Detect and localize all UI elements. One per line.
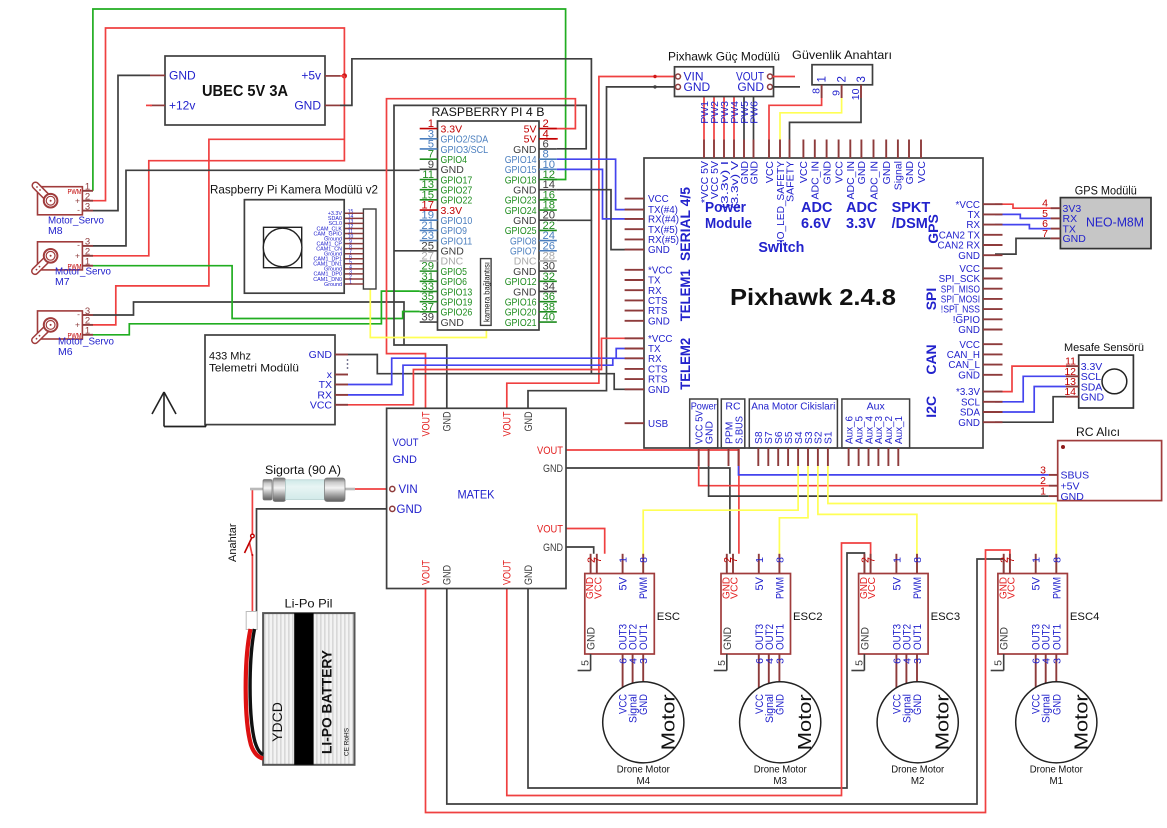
svg-text:6.6V: 6.6V	[801, 216, 831, 232]
svg-text:GPS Modülü: GPS Modülü	[1075, 186, 1137, 198]
svg-text:VOUT: VOUT	[502, 560, 514, 585]
wire MATEK GND2 to Pixhawk Guc Modulu GND	[528, 87, 676, 408]
svg-text:10: 10	[850, 88, 862, 100]
wire PW6	[753, 97, 755, 140]
svg-text:GND: GND	[859, 627, 871, 650]
ESC ESC4	[991, 554, 1100, 690]
svg-text:1: 1	[618, 557, 630, 563]
svg-text:GND: GND	[958, 251, 980, 262]
wire UBEC GND left to servo M8 pin3	[93, 75, 150, 210]
svg-text:Sigorta (90 A): Sigorta (90 A)	[265, 465, 341, 477]
svg-text:3: 3	[912, 658, 924, 664]
svg-text:3: 3	[638, 658, 650, 664]
svg-text:Drone Motor: Drone Motor	[617, 765, 671, 776]
wire MATEK bottom GND1 to ESC4 GND bus	[447, 559, 1004, 804]
svg-text:7: 7	[1042, 228, 1048, 240]
svg-text:I2C: I2C	[923, 396, 939, 418]
power module VOUT stub	[773, 76, 796, 78]
svg-text:1: 1	[891, 557, 903, 563]
svg-text:PW6: PW6	[748, 101, 760, 124]
svg-text:8: 8	[1051, 557, 1063, 563]
svg-text:5: 5	[716, 660, 728, 666]
ESC ESC	[578, 554, 680, 690]
svg-text:Güvenlik Anahtarı: Güvenlik Anahtarı	[792, 48, 892, 62]
svg-text:Drone Motor: Drone Motor	[754, 765, 808, 776]
wire Pixhawk GPS TX to GPS RX	[995, 214, 1051, 218]
GPS module NEO-M8M	[1042, 186, 1151, 249]
svg-text:MATEK: MATEK	[458, 488, 495, 502]
wire +5v branch to servo M6 pin2	[93, 139, 344, 325]
svg-text:5: 5	[853, 660, 865, 666]
wire MATEK bottom GND2 to ESC3 GND bus	[528, 553, 864, 788]
svg-text:GND: GND	[441, 317, 465, 329]
svg-text:GND: GND	[294, 99, 321, 113]
wire PW2	[713, 97, 715, 140]
svg-text:433 Mhz: 433 Mhz	[209, 351, 251, 363]
wire 433 RX to TELEM2 RX	[348, 358, 644, 395]
svg-text:VOUT: VOUT	[502, 411, 514, 436]
svg-text:RX: RX	[648, 354, 662, 365]
svg-text:OUT1: OUT1	[638, 624, 650, 650]
svg-text:3: 3	[1051, 658, 1063, 664]
flight controller Pixhawk 2.4.8	[644, 158, 983, 448]
svg-text:GND: GND	[648, 245, 670, 256]
power module GND stub	[773, 86, 801, 88]
servo motor M6	[35, 306, 93, 340]
svg-text:39: 39	[421, 312, 434, 324]
battery wires thick	[246, 629, 263, 759]
svg-text:GND: GND	[543, 463, 563, 475]
svg-text:YDCD: YDCD	[269, 702, 285, 742]
wire Pixhawk GPS VCC to GPS 3V3	[995, 204, 1051, 208]
svg-text:5V: 5V	[891, 576, 903, 590]
svg-text:ADC_IN: ADC_IN	[868, 161, 880, 200]
svg-text:PWM: PWM	[1051, 577, 1063, 599]
MATEK labels	[393, 437, 495, 502]
svg-text:Anahtar: Anahtar	[227, 523, 239, 562]
wire Pixhawk 3.3V to sensor 3.3V	[995, 366, 1066, 392]
motor Drone Motor M3	[740, 682, 821, 787]
svg-text:VCC: VCC	[916, 161, 928, 184]
Pixhawk bottom connector groups	[690, 399, 910, 466]
MATEK top pins	[420, 411, 535, 436]
wire 433 VCC to TELEM2 VCC	[348, 338, 644, 405]
MATEK right pins	[537, 445, 563, 554]
svg-text:Motor: Motor	[1071, 694, 1091, 750]
svg-text:GND: GND	[958, 325, 980, 336]
svg-text:ESC4: ESC4	[1070, 611, 1100, 623]
camera connector kamera baglantisi	[481, 259, 492, 326]
wire PW3	[723, 97, 725, 140]
svg-text:5V: 5V	[618, 576, 630, 590]
svg-text:M1: M1	[1049, 776, 1063, 787]
wire RPi pin6 GND to MATEK GND1	[394, 105, 586, 408]
antenna symbol	[152, 392, 206, 427]
svg-text:OUT1: OUT1	[912, 624, 924, 650]
svg-text:GND: GND	[648, 316, 670, 327]
fuse Sigorta 90 A	[250, 465, 355, 502]
svg-text:Drone Motor: Drone Motor	[891, 765, 945, 776]
svg-text:1: 1	[817, 76, 829, 82]
svg-text:S.BUS: S.BUS	[734, 416, 745, 444]
svg-text:GPIO21: GPIO21	[505, 317, 537, 329]
motor Drone Motor M2	[877, 682, 958, 787]
svg-text:M6: M6	[58, 346, 73, 358]
svg-text:VCC: VCC	[310, 400, 333, 412]
wire RPi GPIO15 to Pixhawk RX#4	[557, 169, 644, 219]
svg-text:PWM: PWM	[638, 577, 650, 599]
svg-text:GND: GND	[856, 161, 868, 185]
svg-text:Motor: Motor	[933, 694, 953, 750]
servo motor M7	[35, 237, 93, 271]
svg-text:UBEC 5V 3A: UBEC 5V 3A	[202, 83, 288, 100]
wire MATEK GND right1 to ESC2 GND	[566, 468, 730, 554]
wire RPi pin25 GND tap	[394, 250, 438, 252]
svg-text:GND: GND	[774, 694, 786, 715]
wire PW5	[743, 97, 745, 140]
wire PW1	[703, 97, 705, 140]
svg-text:5: 5	[580, 660, 592, 666]
svg-text:7: 7	[728, 557, 740, 563]
svg-text:VIN: VIN	[399, 484, 418, 496]
svg-text:ESC3: ESC3	[931, 611, 961, 623]
wire S3 to ESC2 PWM	[779, 466, 808, 574]
wire S.BUS to RC SBUS	[739, 466, 1049, 475]
svg-text:TELEM1: TELEM1	[677, 269, 693, 321]
wire Pixhawk I2C GND to sensor GND	[995, 397, 1066, 423]
svg-text:GND: GND	[1081, 392, 1105, 404]
Pixhawk left pins SERIAL4/5 TELEM1 TELEM2 USB	[625, 194, 679, 430]
wire MATEK VOUT right2 to ESC1 VCC	[566, 529, 605, 554]
svg-text:1: 1	[1040, 486, 1046, 498]
camera Raspberry Pi Kamera Modulu v2	[210, 183, 378, 294]
svg-text:VCC: VCC	[729, 577, 741, 599]
ESC ESC2	[714, 554, 823, 690]
svg-text:Motor: Motor	[795, 694, 815, 750]
wire GND to RC GND	[709, 466, 1049, 496]
svg-text:5: 5	[993, 660, 1005, 666]
svg-text:ADC_IN: ADC_IN	[810, 161, 822, 200]
svg-text:SPI: SPI	[923, 288, 939, 311]
wire RPi pin20 GND down to GND bus	[590, 220, 592, 373]
svg-text:GND: GND	[309, 349, 333, 361]
svg-text:M2: M2	[911, 776, 925, 787]
svg-text:GND: GND	[1051, 694, 1063, 715]
svg-text:kamera bağlantısı: kamera bağlantısı	[482, 262, 491, 322]
wire safety pin3 to Pixhawk SAFETY	[790, 98, 862, 140]
svg-text:3: 3	[774, 658, 786, 664]
svg-text:ADC: ADC	[801, 200, 833, 216]
svg-text:3: 3	[856, 76, 868, 82]
svg-text:3.3V: 3.3V	[846, 216, 876, 232]
svg-text:GND: GND	[958, 370, 980, 381]
svg-text:TELEM2: TELEM2	[677, 338, 693, 390]
svg-text:GND: GND	[397, 504, 423, 516]
battery Li-Po Pil	[263, 597, 354, 765]
wire servo M6 pin1 PWM to RPi GPIO13	[93, 291, 420, 335]
svg-text:PWM: PWM	[912, 577, 924, 599]
wire +5V top loop (UBEC +5v to servo M8 pin2)	[93, 28, 344, 201]
svg-text:5V: 5V	[754, 576, 766, 590]
svg-text:GND: GND	[904, 161, 916, 185]
svg-text:+: +	[75, 251, 80, 261]
svg-text:GND: GND	[648, 385, 670, 396]
wire GPIO18 loop (RPi pin12 to servo M8 pin1)	[93, 9, 566, 191]
junction dot GND line	[653, 85, 656, 88]
wire fuse to MATEK VIN	[355, 488, 389, 490]
svg-text:GND: GND	[169, 69, 196, 83]
junction dot VIN line	[653, 75, 656, 78]
svg-text:Li-Po Pil: Li-Po Pil	[285, 597, 333, 611]
svg-text:ESC2: ESC2	[793, 611, 823, 623]
svg-text:PWM: PWM	[774, 577, 786, 599]
camera connector pins	[313, 209, 376, 289]
ESC ESC3	[851, 554, 960, 690]
wire S4 to ESC1 PWM	[643, 466, 798, 574]
svg-text:2: 2	[837, 76, 849, 82]
svg-text:GND: GND	[737, 80, 764, 94]
svg-text:Telemetri Modülü: Telemetri Modülü	[209, 363, 299, 375]
svg-text:SPKT: SPKT	[892, 200, 931, 216]
wire RPi 5V pin2 to MATEK VOUT1	[387, 99, 576, 409]
wire Pixhawk GPS RX to GPS TX	[995, 225, 1051, 229]
wire battery minus to MATEK GND	[257, 509, 390, 612]
svg-text:GND: GND	[638, 694, 650, 715]
svg-text:LI-PO BATTERY: LI-PO BATTERY	[319, 649, 335, 754]
svg-text:GND: GND	[523, 411, 535, 431]
wire RPi pin14 GND to Pixhawk SERIAL GND	[557, 190, 644, 250]
svg-text:GND: GND	[523, 565, 535, 585]
svg-text:Raspberry Pi Kamera Modülü v2: Raspberry Pi Kamera Modülü v2	[210, 183, 378, 197]
svg-text:GND: GND	[543, 542, 563, 554]
svg-text:GND: GND	[704, 421, 715, 444]
wire MATEK VOUT right1 to ESC2 VCC	[566, 450, 739, 554]
svg-text:Ground: Ground	[324, 282, 342, 288]
svg-text:+: +	[75, 320, 80, 330]
svg-text:VCC: VCC	[1006, 577, 1018, 599]
svg-text:8: 8	[811, 88, 823, 94]
svg-text:8: 8	[774, 557, 786, 563]
svg-text:1: 1	[754, 557, 766, 563]
svg-text:GND: GND	[999, 627, 1011, 650]
svg-text:7: 7	[592, 557, 604, 563]
svg-text:GND: GND	[958, 418, 980, 429]
voltage regulator UBEC 5V 3A	[146, 56, 344, 125]
svg-text:GND: GND	[442, 411, 454, 431]
svg-text:VCC: VCC	[798, 161, 810, 184]
servo motor M8	[36, 182, 94, 215]
distance sensor Mesafe Sensoru	[1064, 342, 1144, 408]
single-board computer RASPBERRY PI 4 B	[432, 105, 545, 330]
junction dot +5v	[342, 73, 347, 78]
wire MATEK VOUT2 to Pixhawk Guc Modulu VIN	[507, 77, 676, 409]
svg-text:5V: 5V	[1031, 576, 1043, 590]
svg-text:Aux_1: Aux_1	[894, 416, 905, 444]
svg-text:7: 7	[1005, 557, 1017, 563]
svg-text:S1: S1	[824, 431, 835, 444]
wire PW4	[733, 97, 735, 140]
svg-text:VOUT: VOUT	[393, 437, 419, 449]
MATEK left pins VIN GND	[390, 484, 422, 516]
svg-text:RC: RC	[725, 401, 741, 413]
wire MATEK bottom VOUT2 to ESC3 VCC bus	[507, 543, 871, 796]
wire safety pin2 to Pixhawk IO_LED_SAFETY	[780, 98, 842, 140]
wire MATEK bottom VOUT1 to ESC4 VCC bus	[426, 550, 1010, 813]
svg-text:VCC: VCC	[833, 161, 845, 184]
svg-text:M8: M8	[48, 225, 63, 237]
svg-text:VOUT: VOUT	[420, 560, 432, 585]
svg-text:VCC: VCC	[592, 577, 604, 599]
svg-text:GND: GND	[684, 80, 711, 94]
svg-text:-: -	[77, 240, 80, 250]
svg-text:9: 9	[831, 90, 843, 96]
svg-text:VOUT: VOUT	[420, 411, 432, 436]
svg-text:GND: GND	[821, 161, 833, 185]
svg-text:ADC: ADC	[846, 200, 878, 216]
svg-text:GND: GND	[912, 694, 924, 715]
svg-text:VCC: VCC	[648, 194, 669, 205]
wire RPi 5V pin4 stub	[547, 138, 558, 140]
svg-text:ESC: ESC	[657, 611, 680, 623]
svg-text:3: 3	[85, 201, 90, 212]
svg-text:Mesafe Sensörü: Mesafe Sensörü	[1064, 342, 1144, 354]
svg-text:Pixhawk 2.4.8: Pixhawk 2.4.8	[730, 284, 896, 310]
svg-text:Ana Motor Cikislari: Ana Motor Cikislari	[751, 401, 835, 413]
svg-text:CAN: CAN	[923, 344, 939, 374]
svg-text:SERIAL 4/5: SERIAL 4/5	[677, 187, 693, 261]
svg-text:GND: GND	[586, 627, 598, 650]
svg-text:GND: GND	[393, 454, 418, 466]
motor Drone Motor M1	[1016, 682, 1097, 787]
svg-text:Module: Module	[705, 216, 752, 232]
wire UBEC +5v branch down to M7/M6 supply	[93, 76, 344, 256]
wire servo M7 pin1 PWM to RPi GPIO26	[93, 266, 420, 319]
svg-text:Pixhawk Güç Modülü: Pixhawk Güç Modülü	[668, 50, 780, 64]
wire 433 TX to TELEM2 TX	[348, 349, 644, 385]
wire RPi GPIO14 to Pixhawk TX#4	[557, 159, 644, 209]
svg-text:M3: M3	[773, 776, 787, 787]
Pixhawk right pins GPS SPI CAN I2C	[938, 200, 1003, 429]
wire servo M7 pin3 to RPi pin9 GND	[93, 170, 420, 246]
wire MATEK GND right2 to ESC1 GND	[566, 547, 594, 554]
wire Pixhawk GPS GND to GPS GND	[995, 238, 1051, 254]
svg-text:+5v: +5v	[301, 69, 321, 83]
wire safety pin1 to Pixhawk VCC	[769, 98, 822, 140]
wire servo M6 pin3 GND to MATEK GND	[93, 302, 404, 345]
svg-text:M4: M4	[636, 776, 650, 787]
wire Pixhawk SDA to sensor SDA	[995, 387, 1066, 413]
svg-text:GND: GND	[722, 627, 734, 650]
svg-text:7: 7	[866, 557, 878, 563]
wire UBEC GND right to RPi pin6 GND rail	[340, 59, 591, 221]
radio 433 Mhz Telemetri Modulu	[205, 335, 348, 425]
svg-text:SAFETY: SAFETY	[784, 161, 796, 202]
switch Anahtar	[227, 523, 254, 562]
svg-text:CE RoHS: CE RoHS	[344, 727, 351, 756]
svg-text:/DSM: /DSM	[892, 216, 928, 232]
svg-text:Drone Motor: Drone Motor	[1030, 765, 1084, 776]
svg-text:OUT1: OUT1	[774, 624, 786, 650]
svg-text:RC Alıcı: RC Alıcı	[1076, 427, 1120, 439]
switch Guvenlik Anahtari	[792, 48, 892, 100]
motor Drone Motor M4	[603, 682, 684, 787]
svg-text:NEO-M8M: NEO-M8M	[1086, 216, 1144, 230]
svg-text:14: 14	[1064, 386, 1076, 398]
RC receiver RC Alici	[1040, 427, 1161, 503]
svg-text:Motor: Motor	[658, 694, 678, 750]
svg-text:VOUT: VOUT	[537, 445, 563, 457]
svg-text:OUT1: OUT1	[1051, 624, 1063, 650]
svg-text:Aux: Aux	[867, 401, 886, 413]
wire 433 GND to TELEM2 GND	[348, 355, 644, 390]
svg-text:RASPBERRY PI 4 B: RASPBERRY PI 4 B	[432, 105, 545, 119]
svg-text:GND: GND	[881, 161, 893, 185]
power module Pixhawk Guc Modulu	[668, 50, 800, 124]
svg-text:M7: M7	[55, 276, 70, 288]
wire S1 to ESC4 PWM	[828, 466, 1056, 574]
svg-text:-: -	[77, 309, 80, 319]
svg-text:USB: USB	[648, 419, 669, 430]
RPi GPIO header pins	[420, 118, 557, 329]
svg-text:8: 8	[638, 557, 650, 563]
svg-text:40: 40	[543, 312, 556, 324]
svg-text:1: 1	[1031, 557, 1043, 563]
MATEK bottom pins	[420, 560, 535, 585]
svg-text:8: 8	[912, 557, 924, 563]
svg-text:GND: GND	[442, 565, 454, 585]
svg-text:-: -	[77, 204, 80, 214]
wire S2 to ESC3 PWM	[818, 466, 917, 574]
wire camera ribbon (yellow)	[370, 289, 486, 338]
wire VCC 5V to RC +5V	[699, 466, 1049, 486]
svg-text:GND: GND	[1061, 491, 1085, 503]
power distribution board MATEK	[387, 408, 566, 588]
svg-text:VCC: VCC	[866, 577, 878, 599]
wire Pixhawk SCL to sensor SCL	[995, 376, 1066, 402]
svg-text:VOUT: VOUT	[537, 523, 563, 535]
wire battery plus through switch to fuse	[251, 489, 253, 534]
svg-text:GND: GND	[748, 161, 760, 185]
svg-text:+12v: +12v	[169, 99, 195, 113]
Pixhawk top pins	[699, 140, 928, 246]
battery plug	[246, 612, 257, 630]
svg-text:GND: GND	[1063, 233, 1087, 245]
